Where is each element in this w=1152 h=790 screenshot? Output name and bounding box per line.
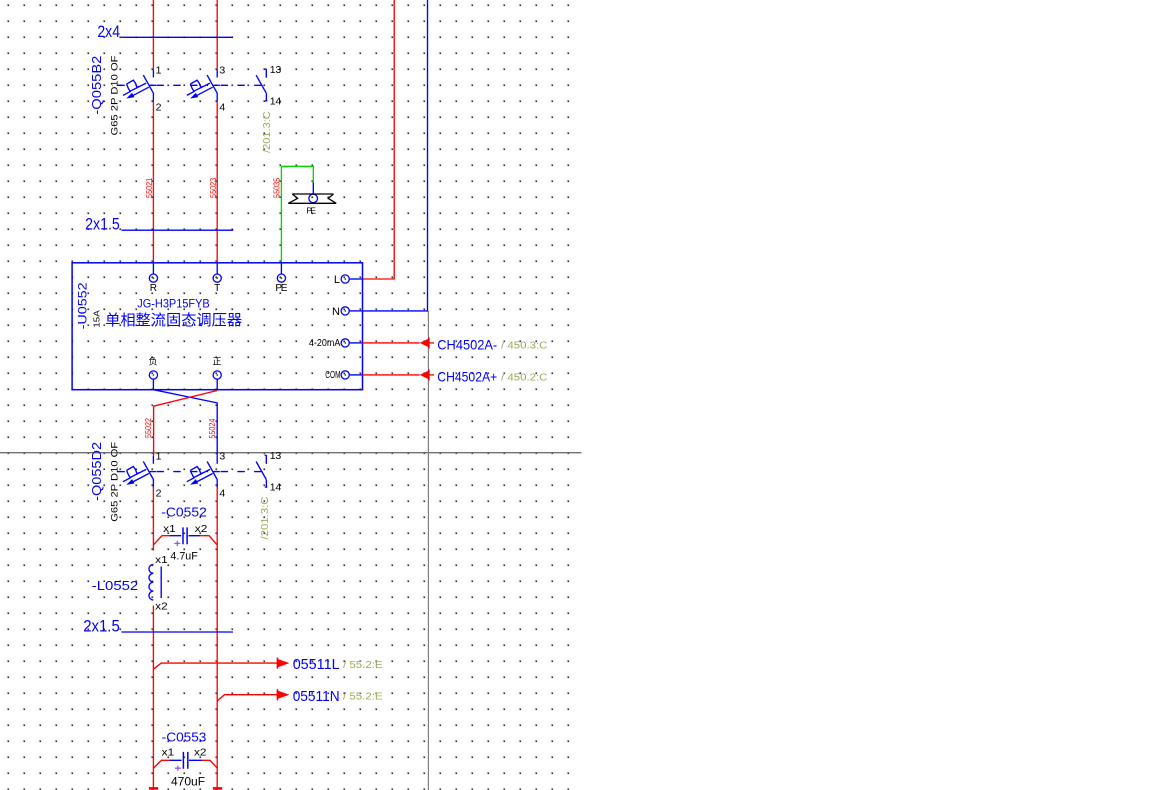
row separator line <box>0 452 582 454</box>
svg-text:05511N: 05511N <box>293 688 340 705</box>
svg-text:1: 1 <box>156 451 162 463</box>
column separator line <box>427 311 429 790</box>
svg-text:G65 2P D10 OF: G65 2P D10 OF <box>109 55 119 136</box>
grid dots <box>0 0 576 790</box>
pos terminal <box>213 371 221 379</box>
svg-text:-Q055D2: -Q055D2 <box>89 442 104 501</box>
svg-text:x1: x1 <box>155 554 168 566</box>
svg-text:2: 2 <box>156 101 162 113</box>
PE ground stub (blue) <box>312 183 314 195</box>
svg-text:14: 14 <box>270 96 282 108</box>
svg-text:470uF: 470uF <box>171 775 205 789</box>
svg-text:/201.3:C: /201.3:C <box>262 111 273 153</box>
svg-text:13: 13 <box>270 450 282 462</box>
svg-text:N: N <box>332 306 340 318</box>
4-20mA stub <box>349 342 362 344</box>
arrow CH4502A- <box>420 337 434 348</box>
wire 55035 PE (green) <box>281 166 313 262</box>
PE terminal <box>277 274 285 282</box>
svg-text:-L0552: -L0552 <box>92 578 138 593</box>
svg-text:13: 13 <box>270 64 282 76</box>
svg-text:正: 正 <box>212 356 221 366</box>
svg-text:55023: 55023 <box>209 177 218 198</box>
wire to 05511L <box>153 663 278 669</box>
C0553 left tap <box>153 760 169 768</box>
N stub <box>349 310 362 312</box>
regulator box -U0552 <box>72 263 362 390</box>
wire 55023 upper (L2 phase) <box>216 0 218 69</box>
svg-text:T: T <box>214 283 220 294</box>
svg-text:/ 450.2:C: / 450.2:C <box>501 372 547 383</box>
svg-text:R: R <box>150 283 157 294</box>
svg-text:4.7uF: 4.7uF <box>170 550 198 562</box>
C0553 polarity plus <box>175 766 181 771</box>
wire right below breaker <box>216 488 218 789</box>
svg-text:-C0552: -C0552 <box>161 505 207 520</box>
svg-text:4: 4 <box>219 488 225 500</box>
svg-text:2x1.5: 2x1.5 <box>83 616 120 635</box>
svg-text:x1: x1 <box>163 523 176 535</box>
C0552 leads <box>170 535 200 537</box>
C0552 polarity plus <box>174 541 180 546</box>
wire to CH4502A- <box>363 342 420 344</box>
wire end terminator left <box>149 787 158 790</box>
svg-text:x1: x1 <box>162 747 175 759</box>
wire 55021 upper (L1 phase) <box>152 0 154 69</box>
COM terminal <box>341 371 349 379</box>
svg-text:/ 55.2:E: / 55.2:E <box>343 692 383 703</box>
svg-text:PE: PE <box>275 283 287 294</box>
C0553 leads <box>170 759 202 761</box>
svg-text:3: 3 <box>219 451 225 463</box>
svg-text:-U0552: -U0552 <box>75 282 89 329</box>
svg-text:1: 1 <box>156 64 162 76</box>
svg-text:55021: 55021 <box>145 177 154 198</box>
svg-text:55022: 55022 <box>144 417 153 438</box>
wire 55021 lower segment <box>152 102 154 263</box>
svg-text:-C0553: -C0553 <box>162 729 207 744</box>
L0552 core line <box>160 567 162 599</box>
svg-text:2x1.5: 2x1.5 <box>85 214 120 233</box>
svg-text:3: 3 <box>219 64 225 76</box>
4-20mA terminal <box>341 339 349 347</box>
L stub <box>349 278 362 280</box>
svg-text:G65 2P D10 OF: G65 2P D10 OF <box>109 441 119 522</box>
cable underline 2x4 <box>121 36 233 38</box>
C0553 plates <box>183 752 187 769</box>
cable underline 2x1.5 upper <box>122 229 234 231</box>
PE rail symbol <box>288 194 336 203</box>
C0552 left tap <box>153 536 169 545</box>
svg-text:负: 负 <box>148 355 157 366</box>
svg-text:4-20mA: 4-20mA <box>309 337 341 349</box>
wire to 05511N <box>217 695 278 701</box>
R terminal stub <box>152 263 154 274</box>
wire left below inductor <box>152 606 154 789</box>
wire 55023 lower segment <box>216 102 218 263</box>
svg-text:05511L: 05511L <box>293 656 340 673</box>
linkage dashed line Q055B2 <box>117 84 261 86</box>
linkage dashed line Q055D2 <box>117 471 261 473</box>
pos terminal stub <box>216 379 218 390</box>
svg-text:/ 55.2:E: / 55.2:E <box>343 660 383 671</box>
wire to CH4502A+ <box>363 374 420 376</box>
svg-text:CH4502A-: CH4502A- <box>437 336 497 352</box>
svg-text:PE: PE <box>306 205 316 215</box>
svg-text:-Q055B2: -Q055B2 <box>89 56 104 115</box>
breaker -Q055B2 aux contact 13-14 <box>256 69 267 101</box>
C0553 right tap <box>202 760 218 768</box>
svg-text:/201.3:C: /201.3:C <box>260 497 271 540</box>
wire cross neg to right <box>153 390 217 456</box>
C0552 plates <box>183 527 187 544</box>
svg-text:x2: x2 <box>194 747 207 759</box>
svg-text:2x4: 2x4 <box>97 22 120 41</box>
breaker -Q055B2 pole 3-4 <box>187 69 220 101</box>
svg-text:COM: COM <box>325 369 340 381</box>
svg-text:55024: 55024 <box>208 418 217 439</box>
COM stub <box>349 374 362 376</box>
wire N to top <box>363 0 428 311</box>
PE terminal circle <box>309 194 318 203</box>
N terminal <box>341 307 349 315</box>
T terminal <box>213 274 221 282</box>
wire left below breaker <box>152 488 154 551</box>
svg-text:x2: x2 <box>155 601 168 613</box>
T terminal stub <box>216 263 218 274</box>
svg-text:55035: 55035 <box>272 177 281 198</box>
svg-text:14: 14 <box>270 482 282 494</box>
arrow 05511L <box>277 658 289 669</box>
wire cross pos to left (55022) <box>154 391 218 456</box>
neg terminal <box>149 371 157 379</box>
L0552 coil <box>149 564 153 600</box>
wire L output to top <box>363 0 395 279</box>
svg-text:4: 4 <box>219 101 225 113</box>
PE terminal stub <box>280 263 282 274</box>
breaker -Q055D2 pole 3-4 <box>187 456 220 488</box>
svg-text:L: L <box>334 274 340 286</box>
svg-text:JG-H3P15FYB: JG-H3P15FYB <box>137 297 209 311</box>
neg terminal stub <box>152 379 154 390</box>
arrow CH4502A+ <box>420 369 434 380</box>
svg-text:x2: x2 <box>195 523 208 535</box>
R terminal <box>149 274 157 282</box>
breaker -Q055D2 pole 1-2 <box>123 456 156 488</box>
svg-text:CH4502A+: CH4502A+ <box>437 368 497 384</box>
svg-text:/ 450.3:C: / 450.3:C <box>501 340 547 351</box>
svg-text:单相整流固态调压器: 单相整流固态调压器 <box>105 312 242 329</box>
arrow 05511N <box>277 689 289 700</box>
svg-text:15A: 15A <box>91 310 101 328</box>
breaker -Q055B2 pole 1-2 <box>123 69 156 101</box>
svg-text:2: 2 <box>156 488 162 500</box>
breaker -Q055D2 aux contact 13-14 <box>256 455 267 487</box>
cable underline 2x1.5 lower <box>122 631 234 633</box>
C0552 right tap <box>200 536 217 545</box>
wire end terminator right <box>213 787 222 790</box>
L terminal <box>341 275 349 283</box>
